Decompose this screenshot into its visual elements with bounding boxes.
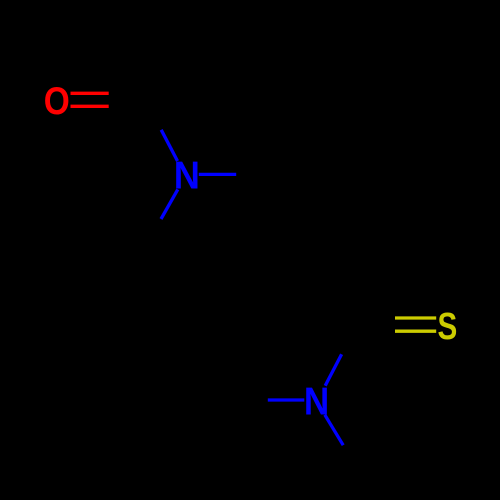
bond N2 to C(=S), N-half stub (up-right): [325, 354, 341, 386]
atom O (carbonyl oxygen label): [44, 78, 70, 122]
bond N1 to right CH2, N-half stub (horizontal right): [199, 173, 236, 176]
bond N1 to lower-left CH2, N-half stub (down-left): [161, 189, 178, 219]
svg-text:O: O: [44, 78, 70, 122]
bond N2 to left CH2, N-half stub (horizontal left): [268, 398, 305, 401]
bond C=O double bond, O-half line 1 (red, upper): [71, 92, 109, 95]
atom S (thione sulfur label): [438, 306, 458, 348]
bond C=S double bond, S-half line 2 (yellow, lower): [395, 330, 436, 333]
bond N2 to methyl C, N-half stub (down-right): [325, 415, 343, 445]
bond C=S double bond, S-half line 1 (yellow, upper): [395, 316, 436, 319]
svg-text:S: S: [438, 306, 458, 348]
atom N1 (amide nitrogen label): [174, 153, 200, 196]
atom N2 (thioamide nitrogen label): [304, 379, 329, 423]
bond C=O double bond, O-half line 2 (red, lower): [71, 105, 109, 108]
bond N1 to carbonyl C, N-half stub (up-left): [161, 130, 177, 161]
